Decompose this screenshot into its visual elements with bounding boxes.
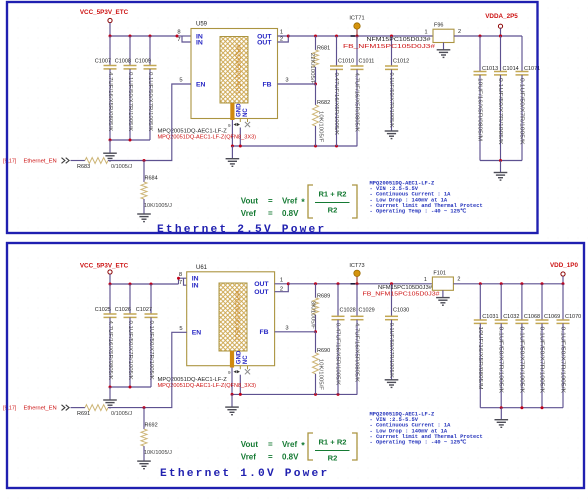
svg-text:3: 3 <box>285 325 288 331</box>
svg-text:OUT: OUT <box>257 39 272 46</box>
svg-text:R1 + R2: R1 + R2 <box>318 437 346 446</box>
resistor R692 pulldown <box>143 408 145 430</box>
svg-text:0.1UF/50/X7R/1005/K: 0.1UF/50/X7R/1005/K <box>498 327 504 394</box>
svg-text:5: 5 <box>179 78 182 84</box>
svg-text:VDDA_2P5: VDDA_2P5 <box>485 13 518 20</box>
svg-text:4.7UF/16/X5R/0805/K: 4.7UF/16/X5R/0805/K <box>354 73 360 133</box>
capacitor C1031 <box>479 284 481 320</box>
capacitor C1008 <box>129 36 131 66</box>
capacitor C1012 <box>390 35 393 38</box>
svg-text:EN: EN <box>196 81 206 88</box>
power symbol VDD_1P0 <box>561 272 565 276</box>
svg-text:NFM15PC105D0J3#: NFM15PC105D0J3# <box>378 285 433 291</box>
wire ground stem <box>231 146 233 159</box>
wire VDD stub <box>500 28 502 36</box>
svg-text:ICT73: ICT73 <box>349 263 364 269</box>
svg-text:4.7UF/16/X5R/0805/K: 4.7UF/16/X5R/0805/K <box>107 72 113 132</box>
svg-text:0.1UF/50/X7R/1005/K: 0.1UF/50/X7R/1005/K <box>519 78 525 145</box>
svg-text:10K/1005/J: 10K/1005/J <box>144 450 172 456</box>
svg-text:R683: R683 <box>77 164 90 170</box>
svg-text:4.7UF/16/X5R/0805/K: 4.7UF/16/X5R/0805/K <box>107 321 113 381</box>
svg-text:EN: EN <box>192 330 202 337</box>
svg-text:C1029: C1029 <box>359 307 375 313</box>
svg-text:Vout: Vout <box>241 197 259 206</box>
svg-text:7: 7 <box>177 37 180 43</box>
wire VCC vertical <box>109 274 111 284</box>
svg-text:=: = <box>268 440 273 449</box>
svg-text:Vref: Vref <box>282 440 297 449</box>
svg-text:C1009: C1009 <box>135 58 151 64</box>
wire bead output <box>454 35 522 37</box>
ground (bypass cap) <box>385 380 399 388</box>
svg-text:IN: IN <box>196 39 203 46</box>
svg-text:9: 9 <box>228 123 231 128</box>
wire output bus <box>288 35 432 37</box>
capacitor C1025 <box>109 284 111 314</box>
ground (EN pulldown) <box>137 461 151 469</box>
schematic frame border <box>7 2 538 233</box>
svg-text:FB: FB <box>260 329 269 336</box>
svg-text:Vout: Vout <box>241 440 259 449</box>
resistor R682 divider bottom <box>315 84 317 105</box>
svg-text:OUT: OUT <box>254 289 269 296</box>
svg-text:OUT: OUT <box>254 281 269 288</box>
capacitor C1028 <box>337 282 340 285</box>
wire output caps ground bus <box>480 407 563 409</box>
wire bead to ground <box>443 43 445 50</box>
svg-text:R684: R684 <box>145 176 158 182</box>
wire analog ground bus <box>232 145 357 147</box>
svg-text:VDD_1P0: VDD_1P0 <box>550 262 578 269</box>
capacitor C1014 <box>500 36 502 72</box>
svg-text:3K/1005/F: 3K/1005/F <box>309 301 315 330</box>
svg-text:0.1UF/50/X7R/1005/K: 0.1UF/50/X7R/1005/K <box>560 327 566 394</box>
svg-text:0.8V: 0.8V <box>282 453 299 462</box>
svg-text:Vref: Vref <box>241 453 256 462</box>
svg-text:C1070: C1070 <box>565 314 581 320</box>
svg-text:C1031: C1031 <box>482 314 498 320</box>
capacitor C1070 <box>562 284 564 320</box>
wire input power bus <box>110 283 179 285</box>
resistor R691 0 ohm <box>71 407 86 409</box>
ground (bead) <box>437 50 451 58</box>
wire output ground stem <box>500 408 502 420</box>
thermal pad stub <box>230 351 234 368</box>
svg-text:1: 1 <box>425 29 428 35</box>
capacitor C1068 <box>521 284 523 320</box>
wire OUT pins <box>275 284 289 292</box>
svg-text:0.1UF/50/X7R/1005/K: 0.1UF/50/X7R/1005/K <box>147 72 153 132</box>
svg-text:Ethernet_EN: Ethernet_EN <box>24 159 57 165</box>
svg-text:10UF/16/X5R/0805/M: 10UF/16/X5R/0805/M <box>477 78 483 141</box>
svg-text:U61: U61 <box>196 265 208 271</box>
capacitor C1071 <box>521 36 523 72</box>
ferrite bead F101 <box>431 283 432 285</box>
ground (bead) <box>436 298 450 306</box>
wire pad to ground bus <box>231 368 233 395</box>
svg-text:GND: GND <box>236 350 242 364</box>
capacitor C1013 <box>479 36 481 72</box>
capacitor C1009 <box>149 36 151 66</box>
svg-text:C1032: C1032 <box>503 314 519 320</box>
capacitor C1027 <box>150 284 152 314</box>
svg-text:3: 3 <box>285 78 288 84</box>
svg-text:R692: R692 <box>145 423 158 429</box>
pin 9/NC stubs <box>239 119 241 123</box>
svg-text:C1028: C1028 <box>340 307 356 313</box>
svg-text:2: 2 <box>457 277 460 283</box>
capacitor C1029 <box>356 282 359 285</box>
capacitor C1069 <box>541 284 543 320</box>
resistor R690 divider bottom <box>315 332 317 353</box>
wire output caps ground bus <box>480 160 522 162</box>
svg-text:R2: R2 <box>328 206 338 215</box>
svg-text:22K/1005/F: 22K/1005/F <box>309 53 315 85</box>
power symbol VCC_5P3V_ETC <box>108 18 112 22</box>
capacitor C1026 <box>129 284 131 314</box>
svg-text:2: 2 <box>280 37 283 43</box>
svg-text:0.1UF/50/X7R/1005/K: 0.1UF/50/X7R/1005/K <box>497 78 503 145</box>
svg-text:0.47UF/16/X5R/1005/K: 0.47UF/16/X5R/1005/K <box>335 323 341 386</box>
capacitor C1007 <box>109 36 111 66</box>
svg-text:MPQ20051DQ-AEC1: MPQ20051DQ-AEC1 <box>235 45 241 95</box>
svg-text:0/1005/J: 0/1005/J <box>111 164 132 170</box>
ground (regulator) <box>226 159 240 167</box>
resistor R684 pulldown <box>143 161 145 183</box>
svg-text:1: 1 <box>280 30 283 36</box>
svg-text:R682: R682 <box>317 100 330 106</box>
svg-text:NC: NC <box>243 108 249 117</box>
svg-text:IN: IN <box>192 276 199 283</box>
svg-text:C1012: C1012 <box>393 58 409 64</box>
svg-text:0.1UF/50/X7R/1005/K: 0.1UF/50/X7R/1005/K <box>518 327 524 394</box>
svg-text:10UF/16/X5R/0805/M: 10UF/16/X5R/0805/M <box>477 327 483 390</box>
svg-text:10K/1005/J: 10K/1005/J <box>144 203 172 209</box>
svg-text:Vref: Vref <box>241 209 256 218</box>
resistor R689 divider top <box>314 282 317 285</box>
svg-text:1: 1 <box>424 277 427 283</box>
svg-text:R2: R2 <box>328 454 338 463</box>
op-amp regulator U61 <box>187 272 275 366</box>
wire FB net <box>278 83 316 85</box>
wire ground stem <box>231 394 233 407</box>
exposed pad (hatched) <box>220 37 248 104</box>
schematic frame border <box>7 243 584 488</box>
svg-text:7: 7 <box>179 280 182 286</box>
svg-text:VCC_5P3V_ETC: VCC_5P3V_ETC <box>80 263 129 270</box>
svg-text:F101: F101 <box>433 270 446 276</box>
svg-text:0/1005/J: 0/1005/J <box>111 411 132 417</box>
svg-text:0.1UF/50/X7R/1005/K: 0.1UF/50/X7R/1005/K <box>148 321 154 381</box>
svg-text:=: = <box>268 197 273 206</box>
svg-text:[9,17]: [9,17] <box>3 159 17 165</box>
capacitor C1032 <box>500 284 502 320</box>
ground (regulator) <box>225 407 239 415</box>
svg-text:C1008: C1008 <box>115 58 131 64</box>
wire analog ground bus <box>232 393 357 395</box>
svg-text:10K/1005/F: 10K/1005/F <box>318 111 324 143</box>
wire GND pin to ground bus <box>239 375 241 395</box>
svg-text:Vref: Vref <box>282 197 297 206</box>
svg-text:0.47UF/16/X5R/1005/K: 0.47UF/16/X5R/1005/K <box>333 73 339 136</box>
svg-text:1: 1 <box>280 277 283 283</box>
resistor R683 0 ohm <box>71 160 86 162</box>
svg-text:- Operating Temp : -40 ~ 125℃: - Operating Temp : -40 ~ 125℃ <box>370 439 467 446</box>
wire FB net <box>275 331 316 333</box>
wire to IN pins <box>179 278 187 284</box>
svg-text:2: 2 <box>458 29 461 35</box>
svg-text:[9,17]: [9,17] <box>3 406 17 412</box>
wire to IN pins <box>177 35 191 37</box>
ground (output caps) <box>494 173 508 181</box>
capacitor C1011 <box>356 35 359 38</box>
wire bead to ground <box>442 290 444 297</box>
svg-text:VCC_5P3V_ETC: VCC_5P3V_ETC <box>80 9 129 16</box>
svg-text:0.1UF/50/X7R/1005/K: 0.1UF/50/X7R/1005/K <box>127 72 133 132</box>
svg-text:0.1UF/50/X7R/1005/K: 0.1UF/50/X7R/1005/K <box>539 327 545 394</box>
svg-text:NFM15PC105D0J3#: NFM15PC105D0J3# <box>367 37 432 43</box>
wire input caps ground bus <box>110 386 151 388</box>
wire bead output <box>453 283 563 285</box>
svg-text:Ethernet 1.0V Power: Ethernet 1.0V Power <box>160 468 329 480</box>
svg-text:R691: R691 <box>77 411 90 417</box>
wire output ground stem <box>500 161 502 173</box>
exposed pad (hatched) <box>219 283 247 351</box>
pin 9/NC stubs <box>239 366 241 370</box>
svg-text:FB_NFM15PC105D0J3#: FB_NFM15PC105D0J3# <box>363 292 441 298</box>
wire GND pin to ground bus <box>239 128 241 147</box>
capacitor C1030 <box>390 282 393 285</box>
svg-text:C1007: C1007 <box>95 58 111 64</box>
svg-text:R690: R690 <box>317 348 330 354</box>
svg-text:0.8V: 0.8V <box>282 209 299 218</box>
svg-text:4.7UF/16/X5R/0805/K: 4.7UF/16/X5R/0805/K <box>354 323 360 383</box>
svg-text:C1025: C1025 <box>95 307 111 313</box>
schematic frame border (top, overlay) <box>7 2 538 233</box>
svg-text:C1027: C1027 <box>136 307 152 313</box>
wire VCC vertical <box>109 23 111 36</box>
svg-text:GND: GND <box>236 103 242 117</box>
ground (output caps) <box>495 420 509 428</box>
ferrite bead F96 <box>432 35 433 37</box>
svg-text:0.1UF/50/X7R/1005/K: 0.1UF/50/X7R/1005/K <box>388 73 394 129</box>
svg-text:NC: NC <box>243 355 249 364</box>
wire to ground <box>109 140 111 153</box>
power symbol VCC_5P3V_ETC <box>108 270 112 274</box>
thermal pad stub <box>230 103 234 120</box>
svg-text:C1068: C1068 <box>524 314 540 320</box>
wire OUT pins <box>278 36 289 42</box>
svg-text:MPQ20051DQ-AEC1: MPQ20051DQ-AEC1 <box>234 291 240 341</box>
schematic frame border (bottom, overlay) <box>7 243 584 488</box>
svg-text:8: 8 <box>177 30 180 36</box>
svg-text:=: = <box>268 209 273 218</box>
svg-text:0.1UF/50/X7R/1005/K: 0.1UF/50/X7R/1005/K <box>388 323 394 379</box>
wire EN net <box>144 84 191 161</box>
resistor R681 divider top <box>314 35 317 38</box>
wire VDD stub <box>562 276 564 284</box>
svg-text:C1030: C1030 <box>393 307 409 313</box>
wire output bus <box>288 283 431 285</box>
ground (input caps) <box>103 400 117 408</box>
svg-text:10K/1005/F: 10K/1005/F <box>318 359 324 391</box>
svg-text:Ethernet_EN: Ethernet_EN <box>24 406 57 412</box>
svg-text:2: 2 <box>280 286 283 292</box>
power symbol VDDA_2P5 <box>498 24 502 28</box>
svg-text:FB_NFM15PC105D0J3#: FB_NFM15PC105D0J3# <box>343 44 436 50</box>
svg-text:C1026: C1026 <box>115 307 131 313</box>
svg-text:5: 5 <box>179 326 182 332</box>
svg-text:=: = <box>268 453 273 462</box>
wire EN net <box>144 332 187 407</box>
svg-text:U59: U59 <box>196 22 208 28</box>
capacitor C1010 <box>335 35 338 38</box>
ground (EN pulldown) <box>137 214 151 222</box>
svg-text:*: * <box>301 197 305 207</box>
ground (input caps) <box>103 153 117 161</box>
svg-text:C1069: C1069 <box>544 314 560 320</box>
op-amp regulator U59 <box>191 29 278 119</box>
svg-text:9: 9 <box>228 370 231 375</box>
svg-text:R689: R689 <box>317 293 330 299</box>
svg-text:R1 + R2: R1 + R2 <box>318 189 346 198</box>
svg-text:0.1UF/50/X7R/1005/K: 0.1UF/50/X7R/1005/K <box>127 321 133 381</box>
wire pad to ground bus <box>231 120 233 146</box>
ground (bypass cap) <box>385 131 399 139</box>
svg-text:C1011: C1011 <box>359 58 375 64</box>
wire input power bus <box>110 35 177 37</box>
svg-text:F96: F96 <box>434 23 443 29</box>
wire to ground <box>109 387 111 400</box>
svg-text:8: 8 <box>179 272 182 278</box>
svg-text:C1010: C1010 <box>338 58 354 64</box>
svg-text:R681: R681 <box>317 46 330 52</box>
svg-text:ICT71: ICT71 <box>349 16 364 22</box>
svg-text:*: * <box>301 441 305 451</box>
svg-text:IN: IN <box>192 283 199 290</box>
svg-text:FB: FB <box>262 81 271 88</box>
wire input caps ground bus <box>110 139 150 141</box>
svg-text:- Operating Temp : -40 ~ 125℃: - Operating Temp : -40 ~ 125℃ <box>370 208 467 215</box>
